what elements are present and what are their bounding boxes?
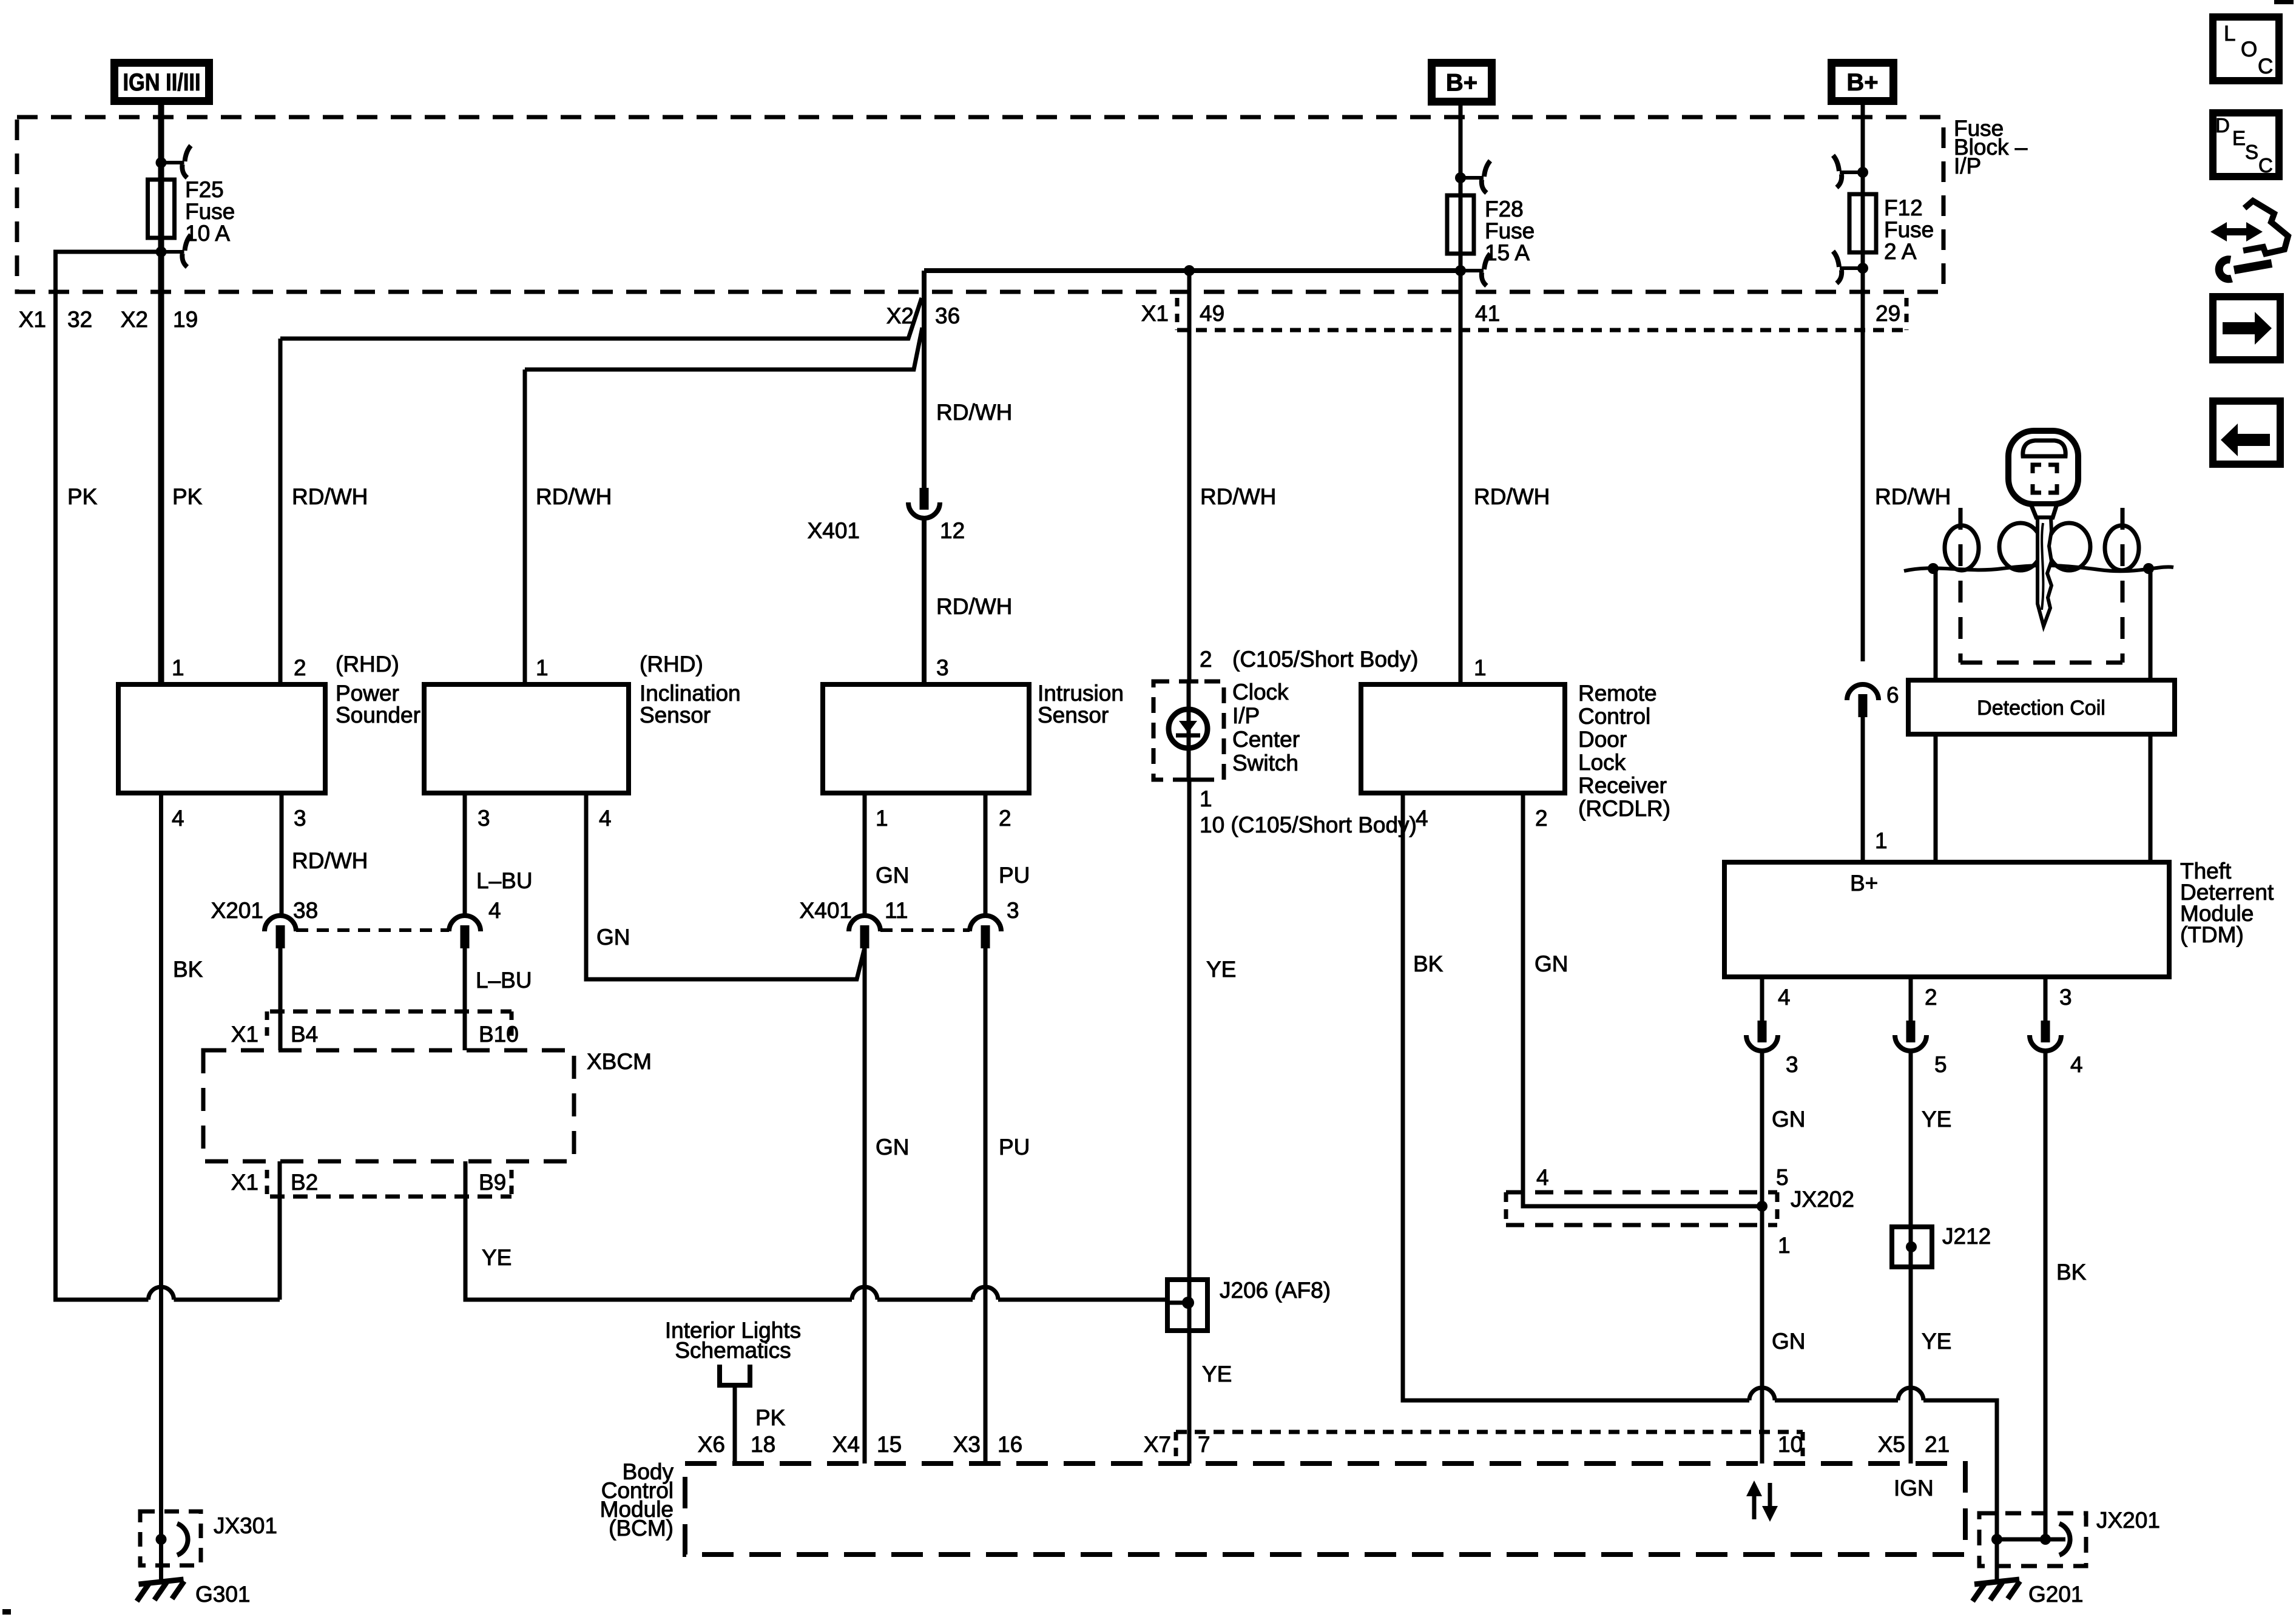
svg-text:Clock: Clock (1232, 680, 1289, 704)
svg-text:Sensor: Sensor (640, 703, 711, 727)
svg-text:JX202: JX202 (1791, 1187, 1854, 1212)
svg-text:GN: GN (1535, 951, 1568, 976)
svg-text:D: D (2215, 114, 2230, 137)
svg-text:C: C (2258, 154, 2273, 177)
svg-text:15: 15 (877, 1432, 902, 1457)
svg-text:BK: BK (173, 957, 203, 982)
svg-text:JX301: JX301 (214, 1513, 277, 1538)
svg-text:B+: B+ (1850, 871, 1878, 896)
svg-text:(TDM): (TDM) (2180, 922, 2244, 947)
svg-text:X201: X201 (211, 898, 263, 923)
svg-text:PU: PU (999, 863, 1030, 888)
svg-text:X1: X1 (19, 307, 46, 332)
svg-text:S: S (2245, 141, 2258, 163)
svg-text:5: 5 (1934, 1052, 1947, 1077)
svg-text:3: 3 (294, 806, 306, 831)
svg-text:(RHD): (RHD) (640, 652, 703, 677)
svg-text:L: L (2224, 22, 2235, 46)
svg-text:C: C (2258, 55, 2273, 78)
svg-text:38: 38 (293, 898, 318, 923)
svg-text:4: 4 (488, 898, 501, 923)
svg-text:YE: YE (1922, 1329, 1951, 1354)
svg-text:J206 (AF8): J206 (AF8) (1220, 1278, 1331, 1303)
svg-text:3: 3 (1007, 898, 1019, 923)
svg-text:X1: X1 (231, 1170, 258, 1195)
svg-text:4: 4 (2070, 1052, 2083, 1077)
svg-text:JX201: JX201 (2096, 1508, 2160, 1533)
svg-text:7: 7 (1198, 1432, 1210, 1457)
svg-text:(RCDLR): (RCDLR) (1578, 796, 1670, 821)
svg-text:Switch: Switch (1232, 751, 1298, 775)
svg-text:2: 2 (294, 655, 306, 680)
svg-text:RD/WH: RD/WH (1875, 484, 1951, 509)
svg-text:4: 4 (599, 806, 612, 831)
svg-text:11: 11 (885, 898, 908, 923)
svg-text:49: 49 (1200, 301, 1224, 326)
svg-text:GN: GN (1772, 1329, 1806, 1354)
svg-text:Sensor: Sensor (1038, 703, 1109, 727)
svg-text:X5: X5 (1878, 1432, 1905, 1457)
svg-text:O: O (2241, 38, 2257, 61)
svg-text:4: 4 (172, 806, 184, 831)
svg-text:Schematics: Schematics (675, 1338, 791, 1363)
svg-text:X1: X1 (231, 1022, 258, 1047)
svg-text:Fuse: Fuse (1485, 218, 1535, 243)
svg-text:Sounder: Sounder (336, 703, 420, 727)
svg-text:IGN: IGN (1894, 1476, 1934, 1501)
svg-text:Remote: Remote (1578, 681, 1657, 706)
svg-text:3: 3 (1786, 1052, 1798, 1077)
svg-text:B10: B10 (479, 1022, 519, 1047)
svg-text:L–BU: L–BU (476, 968, 532, 993)
svg-text:Inclination: Inclination (640, 681, 741, 706)
svg-text:YE: YE (1202, 1362, 1232, 1386)
svg-text:Lock: Lock (1578, 750, 1626, 775)
svg-text:RD/WH: RD/WH (1474, 484, 1550, 509)
svg-text:PK: PK (172, 484, 203, 509)
svg-text:X401: X401 (800, 898, 852, 923)
svg-text:12: 12 (940, 518, 965, 543)
svg-text:(C105/Short Body): (C105/Short Body) (1232, 647, 1418, 672)
svg-text:Fuse: Fuse (185, 199, 235, 224)
svg-text:B4: B4 (291, 1022, 318, 1047)
svg-text:RD/WH: RD/WH (936, 594, 1012, 619)
svg-text:2: 2 (1925, 985, 1937, 1010)
svg-text:5: 5 (1776, 1165, 1789, 1190)
svg-text:2: 2 (1535, 806, 1548, 831)
svg-text:RD/WH: RD/WH (536, 484, 612, 509)
svg-text:29: 29 (1876, 301, 1900, 326)
svg-text:Receiver: Receiver (1578, 773, 1667, 798)
svg-text:X7: X7 (1144, 1432, 1171, 1457)
svg-text:X2: X2 (886, 303, 914, 328)
svg-text:3: 3 (2059, 985, 2072, 1010)
svg-text:YE: YE (1206, 957, 1236, 982)
svg-text:6: 6 (1886, 683, 1899, 707)
svg-text:L–BU: L–BU (476, 868, 533, 893)
svg-text:18: 18 (751, 1432, 775, 1457)
svg-text:1: 1 (1778, 1233, 1791, 1258)
svg-text:2: 2 (1200, 647, 1212, 672)
svg-text:GN: GN (876, 863, 910, 888)
svg-text:RD/WH: RD/WH (292, 484, 368, 509)
svg-text:B9: B9 (479, 1170, 506, 1195)
svg-text:1: 1 (536, 655, 549, 680)
svg-text:X4: X4 (832, 1432, 860, 1457)
svg-text:1: 1 (876, 806, 888, 831)
svg-text:Detection Coil: Detection Coil (1977, 697, 2105, 720)
svg-text:X401: X401 (808, 518, 860, 543)
svg-text:PK: PK (67, 484, 98, 509)
svg-text:2: 2 (999, 806, 1011, 831)
svg-text:Door: Door (1578, 727, 1627, 752)
svg-text:X3: X3 (953, 1432, 981, 1457)
svg-text:BK: BK (2056, 1260, 2087, 1284)
svg-text:4: 4 (1536, 1165, 1549, 1190)
svg-text:Control: Control (1578, 704, 1650, 729)
svg-text:1: 1 (172, 655, 184, 680)
svg-text:I/P: I/P (1232, 703, 1260, 728)
svg-text:GN: GN (1772, 1107, 1806, 1132)
svg-text:F12: F12 (1884, 195, 1923, 220)
svg-text:2 A: 2 A (1884, 239, 1917, 264)
svg-text:Fuse: Fuse (1884, 217, 1934, 242)
svg-text:10 A: 10 A (185, 221, 230, 246)
svg-text:3: 3 (478, 806, 490, 831)
svg-text:X2: X2 (121, 307, 148, 332)
svg-text:Intrusion: Intrusion (1038, 681, 1124, 706)
svg-text:GN: GN (596, 925, 630, 950)
svg-text:B+: B+ (1446, 70, 1477, 96)
svg-text:YE: YE (1922, 1107, 1951, 1132)
svg-text:3: 3 (936, 655, 949, 680)
svg-text:10 (C105/Short Body): 10 (C105/Short Body) (1200, 812, 1417, 837)
svg-text:F28: F28 (1485, 197, 1524, 221)
svg-text:Power: Power (336, 681, 399, 706)
svg-text:J212: J212 (1942, 1224, 1991, 1249)
svg-text:PU: PU (999, 1135, 1030, 1160)
svg-text:XBCM: XBCM (587, 1049, 652, 1074)
svg-text:G201: G201 (2028, 1582, 2084, 1607)
svg-text:F25: F25 (185, 177, 224, 202)
svg-text:(BCM): (BCM) (609, 1516, 674, 1541)
svg-text:1: 1 (1875, 828, 1888, 853)
svg-text:E: E (2232, 127, 2246, 149)
svg-text:IGN II/III: IGN II/III (123, 69, 201, 96)
svg-text:15 A: 15 A (1485, 240, 1530, 265)
svg-text:X1: X1 (1141, 301, 1169, 326)
svg-text:16: 16 (998, 1432, 1022, 1457)
svg-text:21: 21 (1925, 1432, 1950, 1457)
svg-text:4: 4 (1778, 985, 1791, 1010)
svg-text:GN: GN (876, 1135, 910, 1160)
svg-text:RD/WH: RD/WH (292, 848, 368, 873)
svg-text:B2: B2 (291, 1170, 318, 1195)
svg-text:36: 36 (935, 303, 960, 328)
svg-text:19: 19 (173, 307, 198, 332)
svg-text:1: 1 (1200, 786, 1212, 811)
svg-text:Center: Center (1232, 727, 1300, 752)
svg-text:1: 1 (1474, 655, 1487, 680)
svg-text:PK: PK (755, 1405, 786, 1430)
svg-text:RD/WH: RD/WH (1200, 484, 1276, 509)
svg-text:RD/WH: RD/WH (936, 400, 1012, 425)
svg-text:10: 10 (1778, 1432, 1803, 1457)
svg-text:4: 4 (1416, 806, 1428, 831)
svg-text:41: 41 (1475, 301, 1500, 326)
svg-text:32: 32 (67, 307, 92, 332)
svg-text:(RHD): (RHD) (336, 652, 399, 677)
svg-text:B+: B+ (1846, 69, 1878, 96)
svg-text:X6: X6 (698, 1432, 725, 1457)
svg-text:BK: BK (1413, 951, 1443, 976)
svg-text:YE: YE (482, 1245, 512, 1270)
svg-text:G301: G301 (195, 1582, 251, 1607)
svg-text:I/P: I/P (1954, 154, 1981, 178)
